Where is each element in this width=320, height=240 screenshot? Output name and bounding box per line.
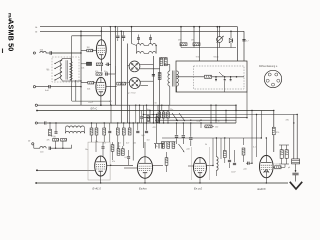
- resistor R15 above: [53, 139, 59, 149]
- junction pickup a: [55, 148, 56, 149]
- coil L3 tuning winding: [70, 61, 73, 80]
- capacitor C20 mid: [175, 122, 178, 144]
- coil L7 below bus b: [66, 131, 85, 133]
- box small mid: [158, 105, 169, 110]
- wire v1332: [132, 123, 134, 161]
- junction V2 cathode: [100, 104, 102, 106]
- wire into V4 grid: [124, 167, 137, 169]
- wire v236: [235, 105, 236, 124]
- wire V3 anode right: [107, 164, 133, 166]
- stray label 10: [253, 147, 256, 149]
- capacitor C23: [228, 138, 231, 168]
- switch arrow V5: [179, 144, 185, 152]
- junction x121 top: [121, 31, 123, 33]
- resistor R30 right of V4: [165, 152, 168, 172]
- wire heater run: [72, 100, 110, 102]
- tube V4 double diode: [137, 157, 152, 179]
- switch arrow mid b: [179, 113, 185, 121]
- diode D1 circle: [217, 36, 224, 43]
- socket view X2: [129, 78, 140, 89]
- wire drop x199: [199, 26, 201, 61]
- resistor R23: [90, 122, 93, 135]
- resistor R31: [223, 138, 226, 163]
- resistor R38 below bus: [103, 122, 106, 135]
- wire V1 anode up: [100, 27, 102, 40]
- title text mA ASMB 50 (rotated): [6, 13, 15, 51]
- junction coil-bus: [153, 114, 154, 115]
- junction box a: [215, 76, 217, 78]
- svg-text:1M: 1M: [191, 40, 194, 42]
- wire web v1358: [135, 105, 136, 124]
- tube V1 triode: [96, 40, 106, 60]
- wire L4 link: [144, 45, 148, 47]
- wire V3 top: [95, 142, 97, 152]
- tube socket legend: [264, 70, 281, 87]
- junction x114 top: [115, 26, 117, 28]
- svg-text:97k: 97k: [276, 132, 279, 134]
- terminal antenna input: [33, 52, 35, 54]
- resistor R6: [117, 82, 122, 85]
- tube V6 output pentode: [260, 155, 274, 177]
- capacitor C14 pickup: [34, 145, 51, 150]
- wire V6 bottom: [266, 178, 267, 184]
- coil L4b: [149, 44, 157, 46]
- svg-text:100: 100: [53, 138, 56, 140]
- wire R38 down: [103, 135, 105, 142]
- wire R18 up: [118, 142, 120, 149]
- wire v252: [251, 110, 252, 164]
- label caps 0.0: [118, 146, 128, 159]
- wire pickup up: [71, 145, 73, 149]
- svg-text:C,ё1: C,ё1: [275, 164, 279, 166]
- label under V2: [88, 102, 94, 104]
- wire R21 down: [123, 135, 125, 146]
- resistor R27 trio b: [162, 112, 165, 118]
- capacitor C11 in box: [224, 77, 226, 81]
- resistor R26 trio a: [158, 112, 161, 118]
- wire heater b: [75, 80, 77, 101]
- capacitor C6 top: [122, 31, 125, 41]
- wire vertical x114: [114, 27, 116, 106]
- tube V5 pentode: [194, 158, 207, 178]
- resistor R37 web: [156, 117, 158, 123]
- svg-text:50: 50: [155, 103, 157, 105]
- band switch dashed box: [52, 57, 79, 82]
- wire X1 left stub: [128, 65, 130, 67]
- switch arrow mid a: [172, 113, 178, 121]
- label 4700: [51, 136, 56, 138]
- wire coil feed: [131, 26, 133, 44]
- junction coil right: [155, 45, 156, 46]
- svg-text:0,1: 0,1: [253, 147, 256, 149]
- junction h3 end: [235, 110, 236, 111]
- resistor R29 mid: [200, 122, 218, 128]
- terminal mid line 1: [35, 104, 37, 106]
- transformer core lines: [66, 60, 68, 79]
- wire top line 2 right drop: [243, 31, 245, 61]
- wire row bus: [181, 44, 236, 47]
- wire V4 anode top: [144, 142, 146, 157]
- wire top band y138: [162, 137, 262, 139]
- capacitor C18 below bus: [145, 122, 148, 132]
- tube V5 label: [194, 187, 203, 191]
- tube V3 pentode: [95, 156, 107, 176]
- capacitor C10 in box: [215, 77, 217, 81]
- label row texture e: [155, 146, 158, 148]
- scan edge tick: [2, 49, 4, 54]
- wire top line 1: [40, 26, 238, 28]
- junction y138 b: [224, 137, 225, 138]
- svg-text:a›: a›: [35, 26, 37, 29]
- wire v211: [210, 105, 211, 124]
- wire X2 right b: [140, 85, 148, 87]
- wire web v1295: [129, 105, 131, 123]
- wire mid line 2: [37, 110, 274, 112]
- stray label 7: [112, 161, 115, 163]
- triple contact: [154, 144, 164, 149]
- wire v226: [225, 110, 226, 123]
- label row texture b: [103, 143, 106, 145]
- node a2 label: [35, 31, 37, 34]
- capacitor C8: [149, 35, 152, 44]
- capacitor C4 V2: [104, 71, 107, 76]
- stray label 12: [142, 135, 146, 137]
- capacitor C12 in box: [230, 77, 232, 81]
- stray label 9: [205, 144, 207, 146]
- label 0.0 row: [118, 143, 130, 145]
- wire vertical x127: [127, 44, 129, 124]
- wire web v1434: [143, 105, 144, 148]
- wire R34 pair top: [279, 144, 289, 146]
- stray label 2: [147, 109, 150, 111]
- capacitor C7: [137, 35, 140, 44]
- wire box exit bottom: [224, 81, 226, 92]
- wire V1 grid: [81, 50, 97, 52]
- wire web v111: [110, 105, 111, 124]
- tube V2 triode: [96, 77, 106, 96]
- resistor R7: [122, 82, 127, 85]
- capacitor C13 on x153: [152, 75, 155, 76]
- junction V3 anode: [110, 165, 111, 166]
- output transformer: [292, 159, 300, 164]
- stray label 5: [197, 121, 202, 123]
- tube V6 label: [258, 187, 266, 191]
- wire mid line 1: [38, 105, 237, 110]
- wire coil right leg: [153, 46, 156, 124]
- junction box c: [230, 76, 232, 78]
- wire v221: [220, 138, 222, 159]
- resistor R36 web: [147, 116, 149, 122]
- junction v1332 gram: [133, 122, 134, 123]
- resistor R32 left of V6: [242, 148, 245, 162]
- stray label 4: [170, 109, 173, 111]
- wire mid line 4: [143, 114, 297, 116]
- wire V5 grid: [188, 165, 194, 167]
- capacitor C2 input: [36, 85, 51, 92]
- wire X1 right b: [140, 68, 160, 70]
- svg-text:150: 150: [215, 127, 218, 129]
- svg-text:Cё47: Cё47: [231, 172, 236, 174]
- wire C4 to bus: [107, 66, 115, 74]
- resistor R11 left of T1: [160, 58, 163, 66]
- svg-text:25n: 25n: [170, 109, 173, 111]
- svg-text:47k: 47k: [95, 71, 98, 73]
- svg-text:a›: a›: [35, 31, 37, 34]
- svg-text:47k: 47k: [47, 140, 50, 142]
- coil L8 choke: [216, 138, 218, 176]
- socket view X1: [129, 61, 140, 72]
- wire antenna to band switch: [52, 52, 82, 53]
- svg-text:0,0·: 0,0·: [118, 143, 122, 145]
- stray label 3: [155, 103, 157, 105]
- label row texture c: [133, 143, 136, 145]
- svg-text:Ø/7+C: Ø/7+C: [91, 108, 98, 110]
- terminal pickup: [28, 139, 34, 145]
- wire R34 down: [279, 158, 289, 164]
- wire band switch bottom: [62, 80, 82, 82]
- resistor R8 drop: [180, 26, 182, 42]
- wire pickup run: [51, 147, 72, 149]
- wire ground bus: [35, 182, 288, 184]
- wire trio bottoms: [159, 118, 169, 124]
- coil L5b: [149, 52, 157, 54]
- svg-text:E+41.0: E+41.0: [93, 186, 102, 190]
- resistor R2 dark box: [81, 62, 92, 69]
- svg-text:47k: 47k: [112, 161, 115, 163]
- junction V1 anode on line2: [101, 31, 103, 33]
- svg-text:5k: 5k: [205, 144, 207, 146]
- svg-text:50n: 50n: [104, 71, 107, 73]
- svg-text:›7k: ›7k: [155, 146, 158, 148]
- svg-text:2M: 2M: [178, 40, 181, 42]
- terminal earth input: [33, 86, 35, 88]
- svg-text:1nё: 1nё: [147, 140, 150, 142]
- wire trio top: [159, 110, 168, 112]
- wire x159 vertical: [159, 58, 161, 124]
- wire vertical x110: [110, 26, 111, 105]
- wire X2 left stub: [128, 81, 130, 83]
- wire dial lamp line: [36, 169, 95, 171]
- wire R20 down: [117, 135, 119, 149]
- capacitor C22 electrolytic: [187, 122, 193, 150]
- wire web v1566: [156, 114, 157, 143]
- box output unit: [176, 61, 247, 92]
- resistor R28 trio c: [167, 112, 170, 118]
- switch S1c contact: [54, 71, 62, 76]
- cluster above V5 res a: [162, 142, 165, 149]
- coil L5a: [137, 52, 145, 54]
- coil L2 tuning winding: [60, 60, 62, 79]
- cluster above V5 top wire: [161, 141, 176, 143]
- svg-text:50k: 50k: [133, 143, 136, 145]
- wire to chassis arrow: [295, 175, 297, 181]
- wire T1 sec bottom: [176, 86, 178, 92]
- dashed box socket wiring: [194, 66, 245, 89]
- wire mid line 5: [143, 117, 247, 119]
- svg-text:0,1: 0,1: [109, 101, 112, 103]
- wire V6 anode top: [266, 137, 267, 155]
- svg-text:W›: W›: [47, 70, 50, 72]
- resistor R9: [191, 40, 200, 46]
- svg-text:µ4: µ4: [288, 167, 290, 169]
- svg-text:Εу.ёго: Εу.ёго: [139, 187, 147, 191]
- capacitor C16: [127, 150, 130, 165]
- svg-text:10n: 10n: [85, 149, 88, 151]
- wire R23 down: [91, 135, 93, 142]
- wire V5 bottom: [199, 178, 200, 184]
- svg-text:Eн.иг2: Eн.иг2: [194, 187, 203, 191]
- svg-text:0,1: 0,1: [103, 143, 106, 145]
- switch label W: [47, 70, 50, 72]
- stray label 11: [153, 127, 156, 129]
- svg-text:9/1C: 9/1C: [196, 57, 201, 59]
- capacitor C25 left of V6: [244, 162, 253, 171]
- cluster above V5 res b: [167, 142, 170, 149]
- label 47k right: [286, 120, 290, 122]
- wire web v150: [149, 110, 150, 123]
- capacitor C27 web: [140, 111, 143, 124]
- wire v216: [215, 105, 216, 124]
- resistor R34 pair a: [280, 145, 283, 158]
- svg-text:µ50: µ50: [244, 169, 247, 171]
- svg-text:Röhrenfassung u.: Röhrenfassung u.: [259, 65, 278, 68]
- arrow in box: [219, 72, 224, 76]
- capacitor C26 output: [288, 164, 299, 175]
- resistor R19: [121, 149, 124, 156]
- wire V2 cathode down: [100, 96, 102, 105]
- svg-text:ASMB 50: ASMB 50: [6, 19, 15, 51]
- terminal mid line 2: [36, 110, 38, 112]
- resistor R21 below bus: [122, 122, 125, 135]
- tube V6 filament: [264, 170, 270, 173]
- svg-text:1k: 1k: [218, 121, 220, 123]
- coil L7 leads: [66, 128, 85, 133]
- terminal gram input: [35, 122, 37, 124]
- label row texture a: [95, 141, 98, 143]
- junction output: [293, 122, 296, 171]
- junction y138 a: [216, 137, 217, 138]
- resistor R33 right of V6: [273, 164, 285, 169]
- coil L1 antenna series: [40, 50, 47, 53]
- svg-text:1M: 1M: [87, 47, 90, 49]
- wire v213: [212, 138, 214, 166]
- resistor R8: [178, 40, 187, 46]
- wire R24 down: [96, 135, 98, 142]
- cluster above V5 res c: [172, 142, 175, 149]
- stray label 8: [85, 149, 88, 151]
- wire pair stub: [284, 164, 286, 167]
- wire coil left leg: [132, 44, 137, 54]
- wire feedback loop left: [71, 36, 73, 101]
- capacitor C28 below bus: [108, 123, 111, 133]
- wire T1 top leads: [164, 65, 170, 71]
- resistor R12 left of T1: [164, 58, 167, 66]
- wire top line 1 right drop: [237, 27, 239, 61]
- resistor R35 pair b: [285, 145, 288, 158]
- wire feedback loop top: [72, 35, 102, 36]
- coil L7 below bus a: [66, 126, 85, 128]
- diode D2: [229, 38, 232, 42]
- wire V3 bottom: [100, 176, 102, 183]
- wire D1 leads: [219, 26, 221, 48]
- wire v243 down: [243, 138, 245, 145]
- wire X1 right a: [140, 64, 154, 66]
- svg-text:µ50: µ50: [187, 149, 190, 151]
- resistor R10 in box: [205, 75, 212, 78]
- capacitor C9: [242, 40, 249, 43]
- wire R19 up: [122, 146, 124, 149]
- resistor R25: [47, 122, 52, 141]
- svg-text:4›n: 4›n: [147, 109, 150, 111]
- wire V2 anode right: [106, 86, 117, 88]
- wire V1 bottom: [100, 59, 102, 71]
- wire V2 grid: [81, 82, 96, 84]
- shield box V3: [88, 142, 110, 180]
- wire drop x217: [217, 26, 219, 61]
- svg-text:A›: A›: [28, 139, 30, 142]
- capacitor C21 mid: [182, 122, 185, 144]
- resistor R5 V2 grid: [87, 81, 94, 90]
- wire V5 anode right: [207, 165, 214, 166]
- wire C28 down: [109, 134, 111, 143]
- wire L5 link: [144, 53, 148, 55]
- resistor R18: [117, 149, 120, 156]
- svg-text:9/10b: 9/10b: [214, 57, 220, 59]
- label 9/10b: [214, 57, 220, 59]
- chassis arrow: [290, 182, 302, 189]
- capacitor C19: [53, 122, 58, 140]
- wire mid line 2 drop: [273, 111, 275, 128]
- svg-text:0,1: 0,1: [125, 157, 128, 159]
- resistor R24: [95, 123, 98, 135]
- stray label 1: [109, 101, 112, 103]
- wire earth input to bus: [50, 86, 81, 87]
- label u7c: [91, 108, 98, 110]
- coil L4a: [137, 44, 145, 46]
- resistor R14 x273: [272, 127, 279, 135]
- junction pickup b: [62, 148, 63, 149]
- wire v2565: [256, 114, 257, 157]
- switch S1a contact: [54, 59, 62, 64]
- stray label 6: [218, 121, 220, 123]
- resistor R13 on x159: [158, 73, 161, 80]
- svg-text:gn·7302: gn·7302: [128, 93, 136, 95]
- socket legend caption: [259, 65, 278, 68]
- resistor R17 above V3: [111, 142, 114, 160]
- capacitor C3 V1 cathode: [105, 63, 111, 66]
- switch S1d contact: [54, 77, 61, 81]
- wire web v1618: [161, 105, 162, 111]
- socket label: [128, 93, 136, 95]
- coil L6 pickup: [40, 147, 46, 154]
- wire output pair b: [297, 114, 298, 159]
- wire top line 2: [40, 30, 244, 32]
- wire R11 R12 top: [160, 57, 168, 60]
- junction box d: [236, 76, 238, 78]
- wire v261: [261, 111, 262, 139]
- node a1 label: [35, 26, 37, 29]
- label row texture d: [147, 140, 150, 142]
- junction web x153 gram: [153, 122, 154, 123]
- svg-text:Εн4С8: Εн4С8: [258, 187, 266, 191]
- wire web v1395: [139, 105, 140, 124]
- capacitor C24: [231, 150, 236, 174]
- capacitor C15 above V3: [102, 142, 105, 156]
- resistor R9 drop: [193, 26, 195, 42]
- wire gram bus: [38, 122, 237, 125]
- svg-text:470: 470: [153, 127, 156, 129]
- wire V4 bottom: [144, 178, 145, 183]
